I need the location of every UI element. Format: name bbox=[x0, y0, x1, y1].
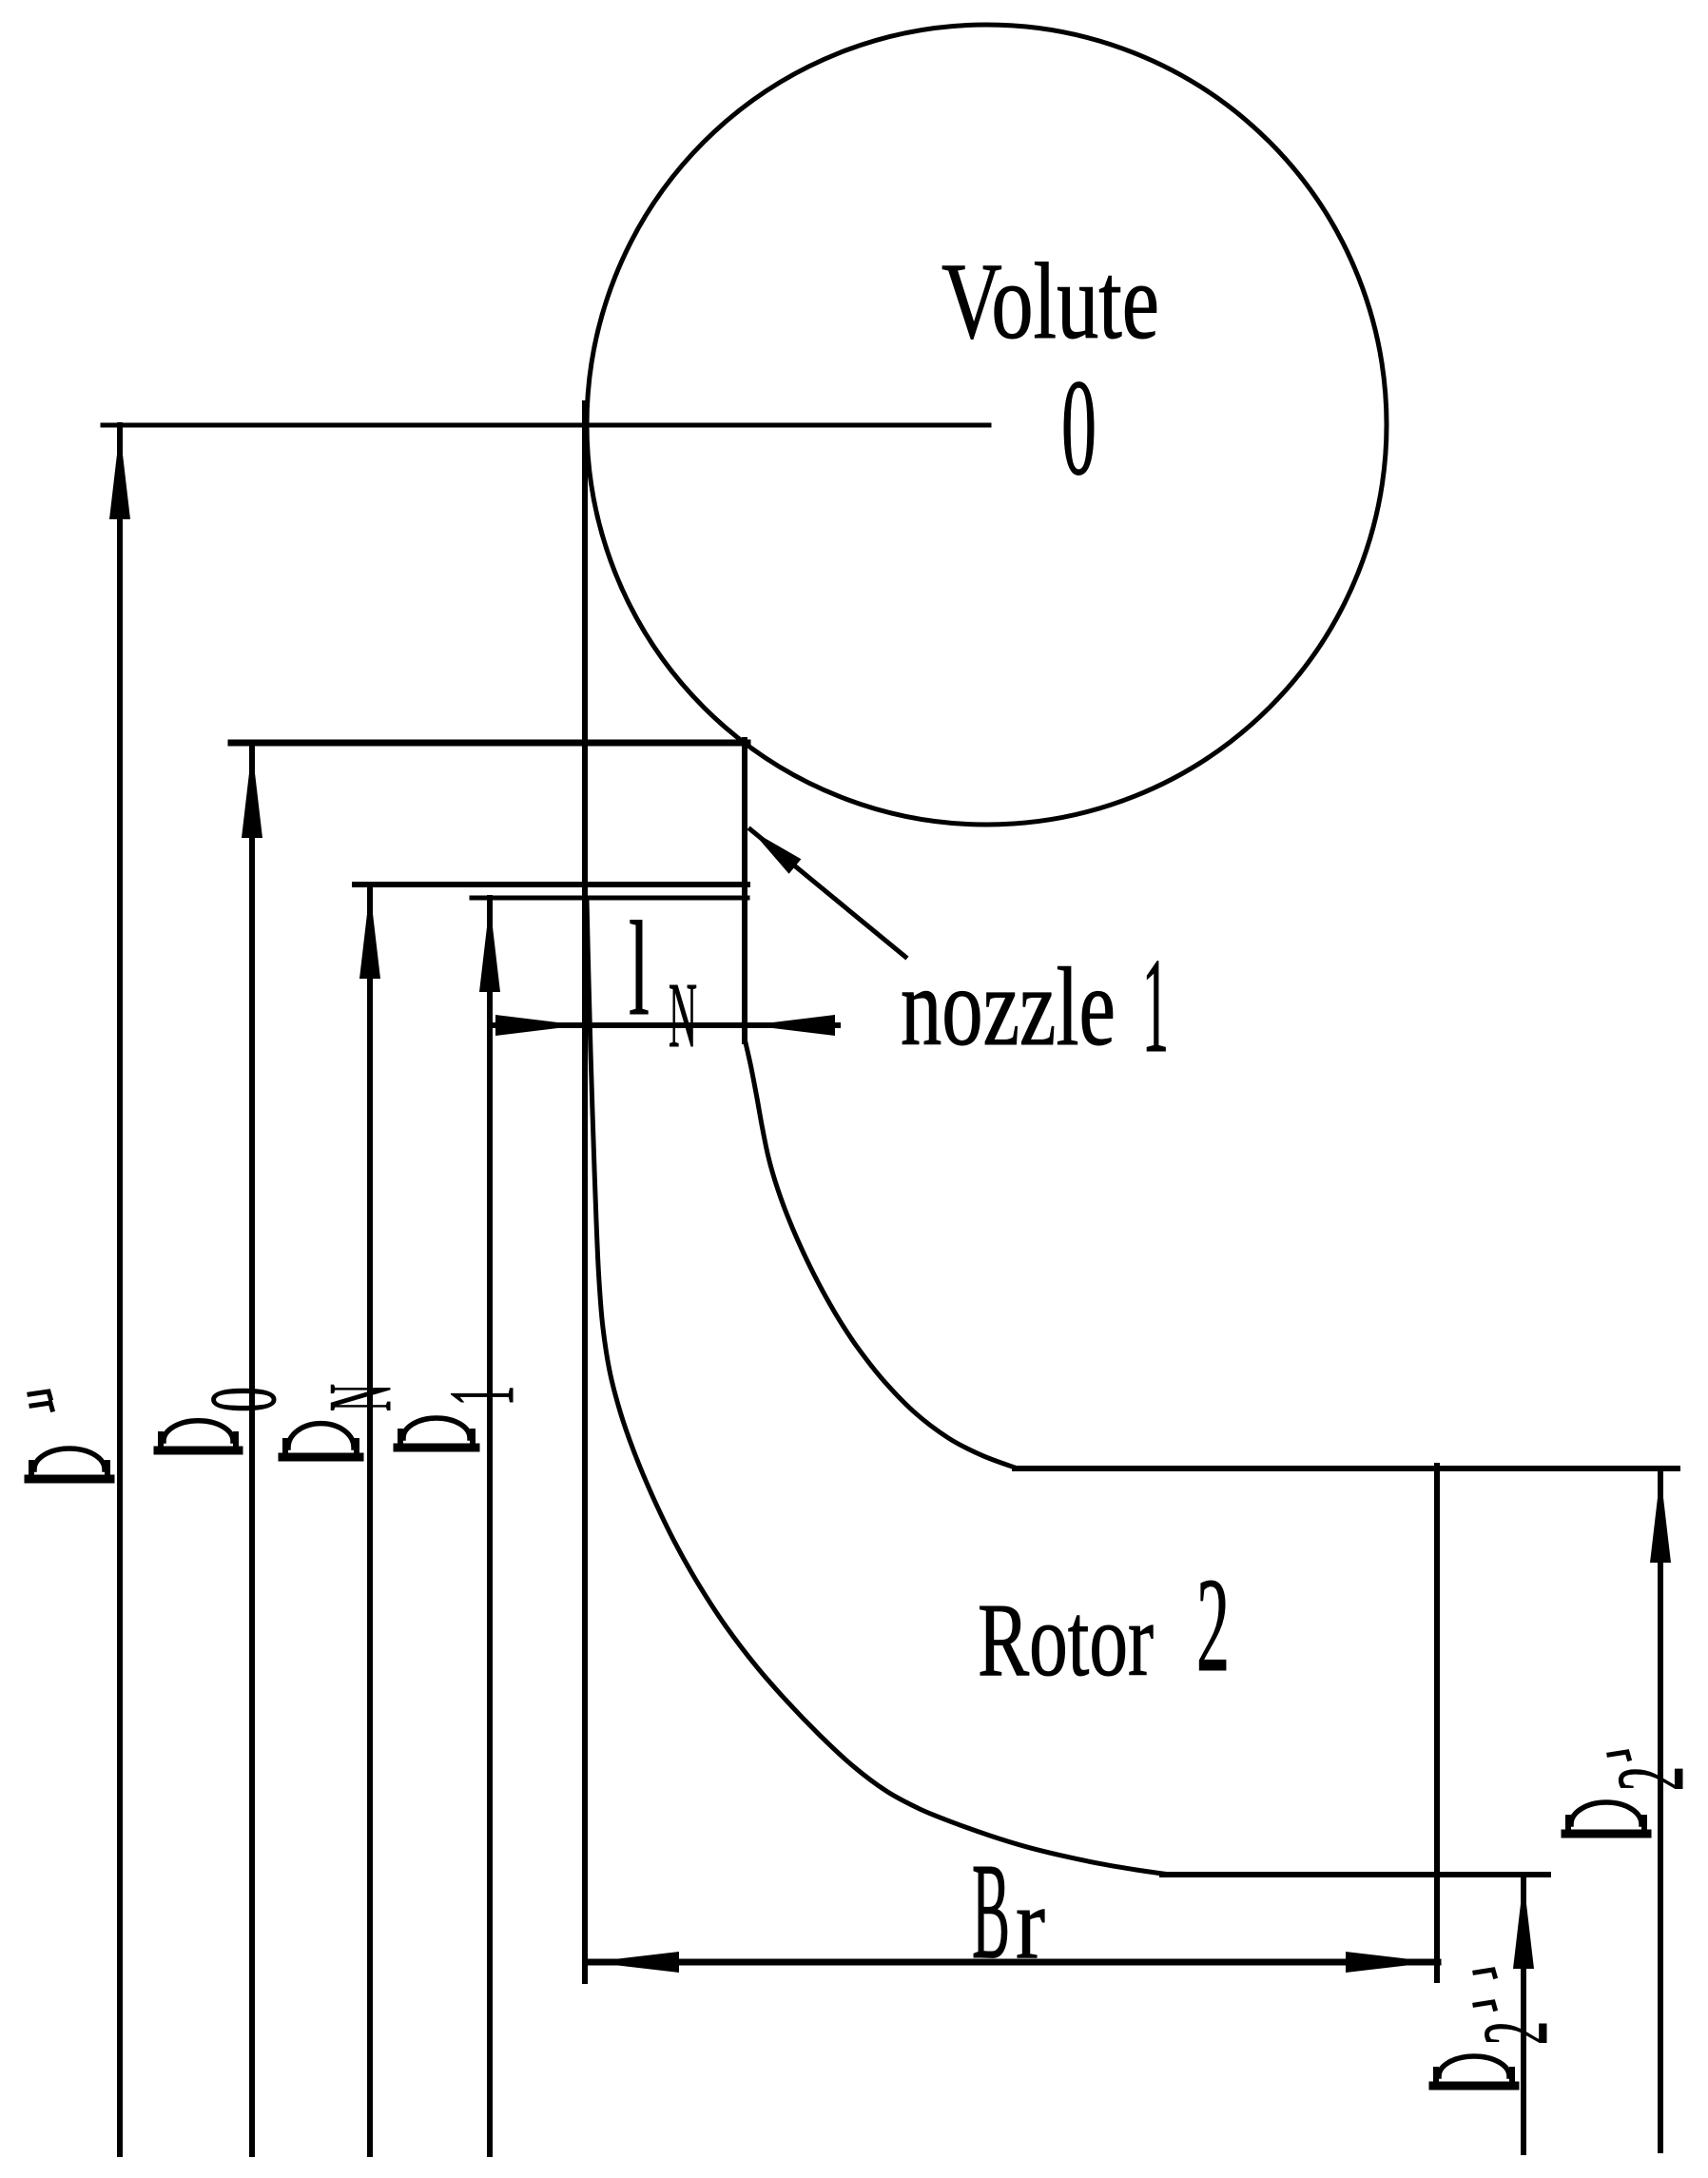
svg-text:1: 1 bbox=[431, 1386, 534, 1406]
label D2' prime bbox=[1609, 1752, 1629, 1759]
dimension line D2' bbox=[1658, 1468, 1663, 2150]
nozzle right wall (hub side) bbox=[742, 740, 747, 1041]
leader arrowhead bbox=[751, 830, 801, 874]
svg-text:l: l bbox=[629, 893, 650, 1043]
svg-text:Rotor: Rotor bbox=[978, 1582, 1154, 1698]
dimension line Br bbox=[587, 1959, 1438, 1966]
shroud vertical line bbox=[582, 403, 588, 1981]
arrowhead D'' bbox=[109, 430, 130, 519]
nozzle inlet extension line DN bbox=[355, 882, 747, 887]
arrowhead D1 bbox=[479, 903, 500, 992]
Br left arrowhead bbox=[590, 1952, 679, 1973]
nozzle top wall bbox=[231, 740, 747, 747]
volute casing circle (section 0) bbox=[587, 25, 1387, 825]
rotor exit top wall bbox=[1015, 1466, 1678, 1471]
label D'' primes bbox=[29, 1391, 52, 1410]
arrowhead D0 bbox=[242, 749, 262, 838]
lN right arrowhead bbox=[749, 1015, 835, 1036]
label D2'' letter D (rotated) bbox=[1433, 2056, 1515, 2086]
rotor exit plane vertical wall bbox=[1434, 1466, 1440, 1980]
svg-text:1: 1 bbox=[1142, 930, 1169, 1080]
svg-text:0: 0 bbox=[1061, 352, 1097, 504]
svg-text:2: 2 bbox=[1465, 2021, 1567, 2045]
dimension line D'' bbox=[117, 425, 123, 2154]
Br right arrowhead bbox=[1346, 1952, 1435, 1973]
centerline of volute section bbox=[103, 423, 989, 428]
label D0 letter D (rotated) bbox=[158, 1421, 239, 1450]
svg-text:N: N bbox=[311, 1384, 410, 1411]
svg-text:2: 2 bbox=[1597, 1766, 1703, 1791]
rotor exit bottom wall bbox=[1162, 1872, 1548, 1877]
arrowhead D2' bbox=[1650, 1473, 1671, 1563]
lN left arrowhead bbox=[495, 1015, 581, 1036]
svg-text:B: B bbox=[972, 1836, 1010, 1988]
svg-text:N: N bbox=[669, 964, 697, 1066]
svg-text:nozzle: nozzle bbox=[901, 944, 1116, 1069]
dimension line D2'' bbox=[1521, 1875, 1526, 2152]
label D1 letter D (rotated) bbox=[398, 1418, 476, 1448]
dimension line lN bbox=[491, 1022, 838, 1028]
label DN letter D (rotated) bbox=[282, 1424, 359, 1457]
svg-text:Volute: Volute bbox=[941, 241, 1159, 361]
dimension line D0 bbox=[249, 743, 255, 2154]
svg-text:2: 2 bbox=[1196, 1549, 1230, 1700]
label D2' letter D (rotated) bbox=[1565, 1802, 1647, 1834]
rotor inlet hub curve (inner bend contour) bbox=[745, 1039, 1015, 1468]
dimension line D1 bbox=[487, 898, 493, 2154]
arrowhead DN bbox=[359, 889, 380, 979]
rotor shroud curve (outer bend contour) bbox=[587, 900, 1170, 1875]
leader line to nozzle bbox=[750, 829, 905, 957]
arrowhead D2'' bbox=[1513, 1879, 1534, 1969]
dimension line DN bbox=[367, 885, 373, 2154]
svg-text:0: 0 bbox=[190, 1387, 296, 1412]
label D2'' primes bbox=[1475, 1970, 1495, 2009]
svg-text:r: r bbox=[1016, 1868, 1045, 1980]
nozzle exit extension line D1 bbox=[472, 896, 747, 901]
label D'' letter D (rotated) bbox=[29, 1449, 110, 1479]
